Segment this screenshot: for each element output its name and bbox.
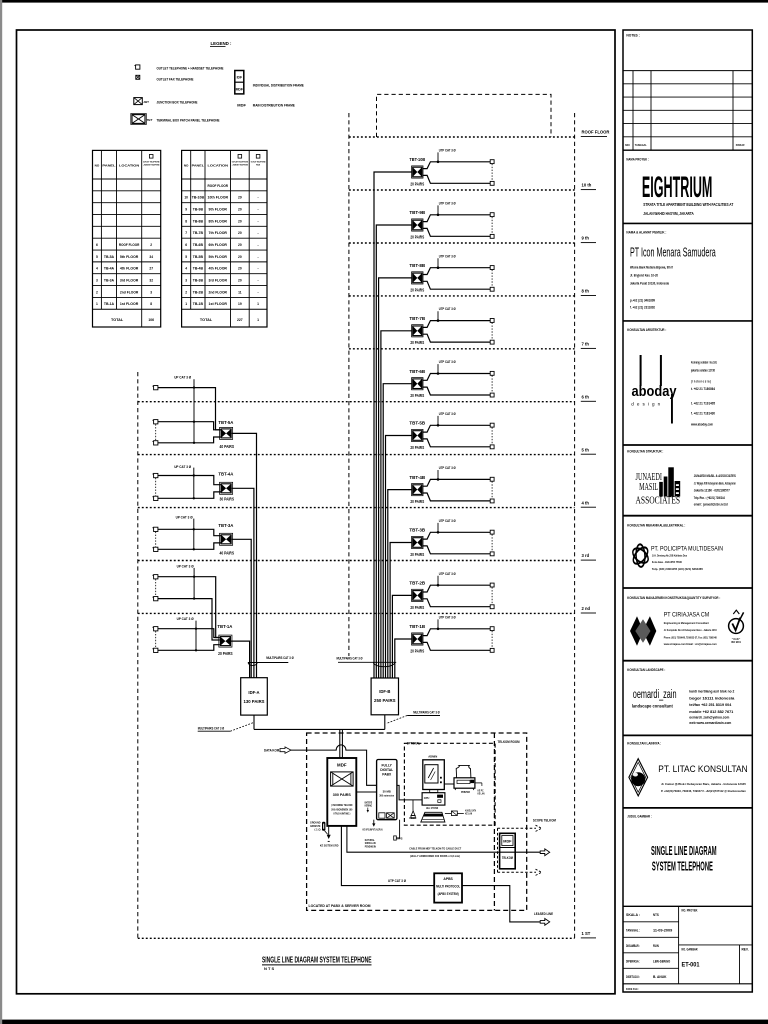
dashed tie 4B outlets — [491, 481, 493, 498]
outlet square 5B bottom — [490, 445, 494, 449]
svg-text:TBT-1B: TBT-1B — [409, 624, 426, 629]
title block border — [623, 30, 752, 992]
outlet square 4B bottom — [490, 499, 494, 503]
svg-text:20 PAIRS: 20 PAIRS — [410, 499, 424, 504]
svg-text:B. ANUK: B. ANUK — [653, 975, 667, 979]
svg-text:TB-1A: TB-1A — [104, 302, 115, 306]
svg-text:Jakarta 12160 - 6202180577: Jakarta 12160 - 6202180577 — [694, 489, 730, 493]
A unit 6th leader line — [193, 379, 195, 443]
svg-text:3 rd: 3 rd — [582, 553, 590, 558]
drawing area border — [17, 30, 616, 994]
floor line 6 — [138, 401, 575, 403]
outlet square 3B bottom — [490, 552, 494, 556]
svg-text:KODE FILE :: KODE FILE : — [626, 987, 639, 991]
svg-text:NO. GAMBAR: NO. GAMBAR — [682, 947, 699, 951]
svg-text:TERMINAL BOX PATCH PANEL TELEP: TERMINAL BOX PATCH PANEL TELEPHONE — [157, 117, 220, 122]
svg-text:20 PAIRS: 20 PAIRS — [410, 605, 424, 610]
svg-text:TBT-10B: TBT-10B — [409, 157, 425, 162]
svg-text:MDF: MDF — [236, 87, 243, 91]
outlet square 1B bottom — [490, 648, 494, 652]
wire 5th outlets to TBT-5A — [158, 422, 221, 443]
svg-text:INDIVIDUAL DISTRIBUTION FRAME: INDIVIDUAL DISTRIBUTION FRAME — [253, 83, 304, 88]
svg-text:40 PAIRS: 40 PAIRS — [220, 444, 235, 449]
svg-text:8: 8 — [150, 302, 152, 306]
svg-text:(APBX SYSTEM): (APBX SYSTEM) — [438, 892, 459, 896]
svg-text:UTP CAT 3 Ø: UTP CAT 3 Ø — [439, 411, 456, 416]
distribution frame IDF-A — [241, 678, 268, 715]
lan connector — [445, 812, 452, 814]
printer port — [475, 782, 482, 784]
svg-text:UTP CAT 3 Ø: UTP CAT 3 Ø — [439, 147, 456, 152]
svg-text:Jl. Kompleks No.14 Kebayoran B: Jl. Kompleks No.14 Kebayoran Baru - Jaka… — [664, 628, 717, 632]
A unit 3rd outlets — [154, 527, 158, 531]
svg-text:4: 4 — [185, 267, 187, 271]
svg-text:MULTIPAIRS CAT 3 Ø: MULTIPAIRS CAT 3 Ø — [198, 727, 225, 731]
svg-text:8 th: 8 th — [582, 289, 590, 294]
svg-text:NAMA & ALAMAT PEMILIK :: NAMA & ALAMAT PEMILIK : — [626, 230, 666, 234]
svg-text:Telp./Fax. : (+6221) 7260244: Telp./Fax. : (+6221) 7260244 — [694, 496, 725, 500]
svg-text:PANEL: PANEL — [192, 163, 204, 167]
optional equipment dashed boundary — [404, 743, 495, 825]
svg-text:7 th: 7 th — [582, 342, 590, 347]
svg-text:UP CAT 3 Ø: UP CAT 3 Ø — [177, 616, 194, 621]
svg-text:Kemang selatan I no.16c: Kemang selatan I no.16c — [691, 361, 717, 365]
svg-text:oemardi_zain: oemardi_zain — [633, 689, 677, 701]
svg-text:1: 1 — [257, 302, 259, 306]
svg-text:TELKOM ROOM: TELKOM ROOM — [498, 740, 520, 744]
svg-text:UTP CAT 3 Ø: UTP CAT 3 Ø — [439, 465, 456, 470]
svg-text:TBT-8B: TBT-8B — [409, 263, 426, 268]
svg-text:-: - — [258, 243, 259, 247]
grounding conductor — [328, 826, 330, 835]
svg-text:20: 20 — [238, 231, 242, 235]
svg-text:-: - — [258, 255, 259, 259]
svg-text:ROOF FLOOR: ROOF FLOOR — [582, 130, 610, 135]
svg-text:1st FLOOR: 1st FLOOR — [209, 302, 228, 306]
svg-text:20: 20 — [238, 243, 242, 247]
wire TBT-6B outlet branches — [423, 374, 490, 396]
svg-text:KE SISTEM GRD: KE SISTEM GRD — [320, 843, 339, 847]
svg-text:DISETUJUI :: DISETUJUI : — [626, 975, 640, 979]
wire 1st outlets to TBT-1A — [158, 629, 220, 651]
MDF telkom box — [500, 833, 516, 869]
wire MDF to APBS — [341, 826, 434, 886]
printer — [456, 765, 471, 777]
svg-text:2nd FLOOR: 2nd FLOOR — [120, 290, 139, 294]
svg-text:-: - — [258, 290, 259, 294]
svg-text:LBN-SBNGO: LBN-SBNGO — [653, 959, 671, 963]
svg-text:NAMA PROYEK :: NAMA PROYEK : — [626, 157, 649, 161]
terminal box TBT-6B — [412, 378, 423, 390]
outlet square 7B top — [490, 319, 494, 323]
svg-text:3: 3 — [150, 290, 152, 294]
svg-text:FULLY: FULLY — [382, 763, 393, 767]
svg-text:4th FLOOR: 4th FLOOR — [120, 267, 139, 271]
outlet square 2B top — [490, 583, 494, 587]
svg-text:TB-3A: TB-3A — [104, 279, 115, 283]
svg-text:MULTIPAIRS CAT 3 Ø: MULTIPAIRS CAT 3 Ø — [266, 656, 294, 660]
legend outlet fax symbol — [136, 75, 140, 79]
monitor neck — [430, 790, 438, 793]
svg-text:aboday: aboday — [632, 384, 677, 400]
svg-text:f. +62 21 7181430: f. +62 21 7181430 — [691, 412, 715, 416]
svg-text:t. +62 21 7180864: t. +62 21 7180864 — [691, 387, 715, 391]
svg-text:N T S: N T S — [264, 966, 275, 971]
svg-text:TB-5B: TB-5B — [193, 255, 204, 259]
dashed tie 5th outlets — [155, 424, 157, 440]
svg-text:6th FLOOR: 6th FLOOR — [209, 243, 228, 247]
svg-text:200 ABONEMEN 100: 200 ABONEMEN 100 — [331, 807, 352, 811]
outlet square 8B top — [490, 266, 494, 270]
riser wire TBT-3B to IDF-B — [390, 543, 411, 678]
shaft boundary dashed line right — [574, 113, 576, 938]
wire TBT-3B outlet branches — [423, 532, 490, 554]
riser wire TBT-1A to IDF-A — [231, 641, 250, 678]
svg-text:MULTIPAIRS CAT 3 Ø: MULTIPAIRS CAT 3 Ø — [413, 710, 440, 714]
svg-text:KONSULTAN MANAJEMEN KONSTRUKSI: KONSULTAN MANAJEMEN KONSTRUKSI&QUANTITY … — [627, 596, 720, 600]
svg-text:TBT: TBT — [147, 118, 153, 122]
svg-text:JBT: JBT — [143, 100, 149, 104]
svg-text:130 PAIRS: 130 PAIRS — [244, 699, 265, 704]
svg-text:UTP CAT 3 Ø: UTP CAT 3 Ø — [439, 306, 456, 311]
svg-text:PT Icon Menara Samudera: PT Icon Menara Samudera — [630, 245, 716, 260]
svg-text:DATA KOM.: DATA KOM. — [264, 749, 280, 753]
svg-text:3rd FLOOR: 3rd FLOOR — [120, 279, 139, 283]
svg-text:6 th: 6 th — [582, 394, 590, 399]
svg-text:Jl. Bryjend Kav. 10-20: Jl. Bryjend Kav. 10-20 — [630, 274, 658, 278]
APBS cabinet — [434, 873, 462, 902]
terminal box TBT-3B — [412, 536, 423, 548]
svg-text:1: 1 — [257, 318, 259, 322]
floor line 8th — [349, 295, 575, 297]
wire data kom to PABX with jump — [291, 745, 377, 785]
svg-text:TB-1B: TB-1B — [193, 302, 204, 306]
MDF terminal symbol — [331, 772, 354, 786]
litac diamond logo — [629, 759, 648, 796]
wire IDF-A output — [253, 715, 255, 729]
svg-text:UPS: UPS — [397, 836, 403, 840]
svg-text:CPU: CPU — [424, 796, 430, 800]
wire TBT-8B outlet branches — [423, 268, 490, 290]
svg-text:KONSULTAN LAINNYA :: KONSULTAN LAINNYA : — [627, 742, 661, 746]
svg-text:jakarta selatan 12730: jakarta selatan 12730 — [690, 369, 715, 373]
svg-text:8th FLOOR: 8th FLOOR — [209, 219, 228, 223]
svg-text:TOTAL: TOTAL — [200, 318, 213, 322]
svg-text:4 th: 4 th — [582, 500, 590, 505]
svg-text:www.aboday.com: www.aboday.com — [690, 422, 713, 426]
outlet square 6B top — [490, 371, 494, 375]
svg-text:+ HANDSET TELEPHONE: + HANDSET TELEPHONE — [143, 163, 160, 166]
legend TBT symbol — [131, 114, 147, 125]
svg-text:TB-9B: TB-9B — [193, 207, 204, 211]
svg-text:OUTLET TELEPHONE: OUTLET TELEPHONE — [232, 162, 249, 164]
svg-text:TB-7B: TB-7B — [193, 231, 204, 235]
terminal box TBT-1A — [219, 635, 232, 647]
svg-text:20: 20 — [238, 267, 242, 271]
svg-text:1: 1 — [96, 302, 98, 306]
svg-text:20: 20 — [238, 255, 242, 259]
svg-text:-: - — [258, 207, 259, 211]
svg-text:NOTES :: NOTES : — [626, 34, 639, 38]
svg-text:ARRESTE: ARRESTE — [310, 824, 321, 828]
svg-text:SKALA :: SKALA : — [626, 913, 640, 917]
svg-text:NO. PROYEK: NO. PROYEK — [682, 909, 699, 913]
terminal box TBT-5B — [412, 429, 423, 441]
PABX cabinet — [377, 760, 397, 820]
svg-text:20 PAIRS: 20 PAIRS — [410, 287, 424, 292]
server room dashed boundary — [307, 733, 527, 910]
svg-text:TBT-3B: TBT-3B — [409, 528, 426, 533]
svg-text:PT CIRIAJASA CM: PT CIRIAJASA CM — [664, 613, 710, 619]
svg-text:TBT-4A: TBT-4A — [218, 472, 234, 477]
svg-text:TANGGAL :: TANGGAL : — [626, 928, 640, 932]
wire TBT-4B outlet branches — [423, 479, 490, 501]
svg-text:2nd FLOOR: 2nd FLOOR — [209, 290, 228, 294]
svg-text:30 PAIRS: 30 PAIRS — [220, 497, 235, 502]
riser wire TBT-9B to IDF-B — [376, 225, 411, 678]
floor line 4 — [138, 507, 575, 509]
svg-text:TBT-2B: TBT-2B — [409, 581, 426, 586]
floor line 7th — [349, 348, 575, 350]
svg-text:LEGEND :: LEGEND : — [211, 41, 233, 46]
svg-text:oemardi_zain@yahoo.com: oemardi_zain@yahoo.com — [689, 716, 729, 720]
svg-text:PT. POLICIPTA MULTIDESAIN: PT. POLICIPTA MULTIDESAIN — [651, 546, 723, 553]
svg-text:4: 4 — [96, 267, 98, 271]
svg-text:2: 2 — [185, 290, 187, 294]
svg-text:20 PAIRS: 20 PAIRS — [410, 648, 424, 653]
terminal box TBT-5A — [220, 427, 233, 439]
svg-text:6: 6 — [185, 243, 187, 247]
svg-text:Telp. (021) 6364455 (HU) (021): Telp. (021) 6364455 (HU) (021) 6364365 — [652, 567, 703, 571]
svg-text:tel/fax +62 251 8319 004: tel/fax +62 251 8319 004 — [689, 703, 731, 707]
shaft boundary dashed line left — [137, 372, 139, 938]
svg-text:PRINTER: PRINTER — [461, 790, 470, 794]
svg-text:10th FLOOR: 10th FLOOR — [208, 196, 229, 200]
dashed tie 9B outlets — [491, 217, 493, 234]
svg-text:20: 20 — [238, 219, 242, 223]
svg-text:TBT-3A: TBT-3A — [218, 523, 234, 528]
terminal box TBT-4B — [412, 484, 423, 496]
svg-text:TOTAL: TOTAL — [111, 318, 124, 322]
svg-text:email : junaedi@cbn.net.id: email : junaedi@cbn.net.id — [694, 502, 728, 506]
svg-text:PENDINGIN: PENDINGIN — [365, 845, 376, 849]
dashed tie 2nd outlets — [155, 579, 157, 596]
cable bundle tie IDF-B — [373, 662, 394, 666]
svg-text:PANEL: PANEL — [102, 163, 115, 167]
svg-text:( INCOMING TELKOM: ( INCOMING TELKOM — [331, 803, 352, 807]
svg-text:KERING: KERING — [365, 805, 373, 808]
svg-text:UP CAT 3 Ø: UP CAT 3 Ø — [174, 464, 191, 469]
svg-text:6: 6 — [96, 243, 98, 247]
svg-text:ROOF FLOOR: ROOF FLOOR — [208, 184, 229, 188]
svg-text:kanti mertilang asri blok no 2: kanti mertilang asri blok no 2 — [689, 689, 734, 693]
roof conduit dashed outline — [377, 94, 552, 137]
svg-text:7: 7 — [185, 231, 187, 235]
legend JBT symbol — [134, 98, 143, 105]
svg-text:Jl. Camar (I) Blok-I Kebayoran: Jl. Camar (I) Blok-I Kebayoran Baru, Jak… — [661, 782, 746, 786]
svg-text:ADMIN: ADMIN — [428, 754, 437, 758]
svg-text:5th FLOOR: 5th FLOOR — [120, 255, 139, 259]
svg-text:PABX: PABX — [382, 772, 392, 776]
riser wire TBT-5B to IDF-B — [386, 436, 412, 678]
svg-text:Phone: (021) 7209648, 7209533-: Phone: (021) 7209648, 7209533-37, Fax: (… — [664, 635, 717, 639]
svg-text:ISO 9001: ISO 9001 — [731, 642, 741, 644]
svg-text:BILL SYSTEM: BILL SYSTEM — [426, 806, 439, 810]
svg-text:TBT-9B: TBT-9B — [409, 210, 426, 215]
svg-text:LOCATED AT PABX & SERVER ROOM: LOCATED AT PABX & SERVER ROOM — [309, 904, 371, 908]
A unit 4th outlets — [154, 473, 158, 477]
svg-text:LOCATION: LOCATION — [119, 163, 140, 167]
svg-text:p.+62 (21) 3461899: p.+62 (21) 3461899 — [630, 298, 655, 302]
dashed tie 3B outlets — [491, 534, 493, 551]
title block fields — [623, 921, 679, 923]
wire TBT-7B outlet branches — [423, 321, 490, 343]
svg-text:10: 10 — [184, 196, 188, 200]
A unit 5th outlets — [154, 420, 158, 424]
svg-text:TBT-6B: TBT-6B — [409, 369, 426, 374]
svg-text:TBT-7B: TBT-7B — [409, 316, 426, 321]
dashed tie 6B outlets — [491, 376, 493, 393]
svg-text:9th FLOOR: 9th FLOOR — [209, 207, 228, 211]
legend outlet telephone symbol — [136, 65, 140, 69]
wire TBT-9B outlet branches — [423, 215, 490, 237]
svg-text:5: 5 — [96, 255, 98, 259]
riser wire TBT-10B to IDF-B — [374, 172, 412, 678]
svg-text:MODEM: MODEM — [409, 817, 416, 820]
svg-text:OUTLET TELEPHONE: OUTLET TELEPHONE — [143, 162, 160, 164]
A unit 3rd leader line — [193, 519, 195, 550]
svg-text:3: 3 — [185, 279, 187, 283]
wire TBT-2B outlet branches — [423, 585, 490, 607]
dashed tie 7B outlets — [491, 323, 493, 340]
svg-text:MULTI PROTOCOL: MULTI PROTOCOL — [436, 885, 460, 889]
terminal box TBT-4A — [220, 482, 233, 494]
legend IDF-MDF frame symbol — [235, 71, 244, 94]
dashed tie 10B outlets — [491, 164, 493, 181]
svg-text:1st FLOOR: 1st FLOOR — [120, 302, 139, 306]
svg-text:JUDUL GAMBAR :: JUDUL GAMBAR : — [627, 815, 652, 819]
svg-text:UTP CAT 3 Ø: UTP CAT 3 Ø — [439, 253, 456, 258]
wire 6th outlet to TBT-5A — [158, 388, 221, 430]
svg-text:" KAN ": " KAN " — [732, 638, 740, 641]
svg-text:+ HANDSET TELEPHONE: + HANDSET TELEPHONE — [232, 163, 249, 166]
page frame top bar — [0, 0, 768, 3]
svg-text:LEASED LINE: LEASED LINE — [534, 912, 554, 916]
page frame bottom bar — [0, 1020, 768, 1024]
svg-text:KE LAN: KE LAN — [478, 792, 485, 795]
terminal box TBT-1B — [412, 633, 423, 645]
A unit 1st outlets — [154, 627, 158, 631]
svg-text:landscape consultant: landscape consultant — [632, 704, 673, 709]
svg-text:Kota Jawa - JAKARTA 75640: Kota Jawa - JAKARTA 75640 — [652, 560, 682, 564]
wire TBT-10B outlet branches — [423, 162, 490, 184]
svg-text:2 nd: 2 nd — [582, 606, 591, 611]
svg-text:MDF: MDF — [337, 762, 347, 767]
riser wire TBT-2B to IDF-B — [392, 595, 411, 677]
svg-text:-: - — [258, 231, 259, 235]
svg-text:ROOF FLOOR: ROOF FLOOR — [119, 243, 140, 247]
keyboard — [421, 812, 445, 822]
svg-text:Engineering & Management Consu: Engineering & Management Consultant — [664, 621, 709, 625]
svg-text:27: 27 — [149, 267, 153, 271]
svg-text:JUNAEDI MASIL & ASSOCIATES: JUNAEDI MASIL & ASSOCIATES — [694, 474, 737, 478]
svg-text:SCOPE TELKOM: SCOPE TELKOM — [533, 819, 556, 823]
svg-text:TB-6B: TB-6B — [193, 243, 204, 247]
svg-text:32: 32 — [149, 279, 153, 283]
main distribution frame MDF — [327, 758, 356, 826]
outlet square 8B bottom — [490, 287, 494, 291]
svg-text:300 PAIRS: 300 PAIRS — [333, 792, 351, 797]
svg-text:1 ST: 1 ST — [582, 931, 591, 936]
terminal box TBT-9B — [412, 219, 423, 231]
svg-text:APBS: APBS — [443, 877, 453, 881]
riser wire TBT-6B to IDF-B — [383, 384, 411, 678]
svg-text:1: 1 — [185, 302, 187, 306]
svg-text:10 th: 10 th — [582, 183, 592, 188]
svg-text:KE UPS (INPUT) AC/PLN: KE UPS (INPUT) AC/PLN — [363, 828, 383, 832]
svg-text:SYSTEM TELEPHONE: SYSTEM TELEPHONE — [652, 859, 713, 874]
svg-text:UTP CAT 3 Ø: UTP CAT 3 Ø — [439, 200, 456, 205]
svg-text:40 PAIRS: 40 PAIRS — [220, 551, 235, 556]
floor line 3 — [138, 560, 575, 562]
svg-text:11: 11 — [238, 290, 242, 294]
svg-text:TBT-1A: TBT-1A — [217, 624, 233, 629]
A unit 2nd leader line — [193, 568, 195, 599]
floor line 9th — [349, 242, 575, 244]
svg-text:CABLE FROM MDF TELKOM TO CABLE: CABLE FROM MDF TELKOM TO CABLE DUCT — [409, 847, 461, 851]
svg-text:NO: NO — [625, 143, 630, 147]
svg-text:19: 19 — [238, 302, 242, 306]
wire IDF collector horizontal — [254, 728, 385, 730]
wire monitor to printer — [444, 783, 454, 785]
svg-text:Jl.H. Deniang No.23B Kalibata: Jl.H. Deniang No.23B Kalibata Dua — [652, 554, 687, 558]
svg-text:GROUND: GROUND — [310, 820, 321, 824]
wire 3rd outlets to TBT-3A — [158, 529, 221, 549]
riser wire TBT-4B to IDF-B — [388, 490, 412, 678]
svg-text:DIGITAL: DIGITAL — [380, 768, 393, 772]
svg-text:250 PAIRS: 250 PAIRS — [374, 698, 396, 703]
wire MDF to telkom cable duct — [347, 826, 540, 852]
svg-text:MULTIPAIRS CAT 3 Ø: MULTIPAIRS CAT 3 Ø — [337, 657, 363, 661]
CPU desktop case — [422, 793, 445, 805]
wire collector to MDF pair — [339, 729, 341, 758]
svg-text:20: 20 — [238, 279, 242, 283]
svg-text:20 PAIRS: 20 PAIRS — [410, 181, 424, 186]
svg-text:DIGAMBAR :: DIGAMBAR : — [626, 944, 640, 948]
dashed tie 1B outlets — [491, 631, 493, 648]
wire TBT-5B outlet branches — [423, 425, 490, 447]
telkom room partition dashed — [493, 733, 495, 910]
svg-text:TBT-5B: TBT-5B — [409, 421, 426, 426]
outlet square 9B bottom — [490, 234, 494, 238]
floor line 1st — [138, 937, 575, 939]
svg-text:NO: NO — [184, 163, 189, 167]
svg-text:-: - — [258, 267, 259, 271]
svg-text:34: 34 — [149, 255, 153, 259]
outlet square 1B top — [490, 627, 494, 631]
svg-text:Jakarta Pusat 10130, Indonesia: Jakarta Pusat 10130, Indonesia — [630, 281, 670, 285]
riser wire TBT-3A to IDF-A — [232, 539, 252, 677]
dashed scope bracket around MDF telkom — [498, 827, 537, 829]
svg-text:JUNCTION BOX TELEPHONE: JUNCTION BOX TELEPHONE — [157, 100, 198, 105]
A unit 2nd outlets — [154, 575, 158, 579]
svg-text:OPTIONAL: OPTIONAL — [407, 742, 421, 746]
svg-text:REV.: REV. — [742, 947, 749, 951]
riser wire TBT-7B to IDF-B — [381, 331, 412, 678]
wire 2nd outlets down to TBT-1A — [158, 577, 220, 640]
svg-text:Jl. Wijaya XIII Kebayoran Baru: Jl. Wijaya XIII Kebayoran Baru, Kebayora… — [694, 481, 736, 485]
svg-text:KONSULTAN LANDSCAPE :: KONSULTAN LANDSCAPE : — [627, 668, 665, 672]
